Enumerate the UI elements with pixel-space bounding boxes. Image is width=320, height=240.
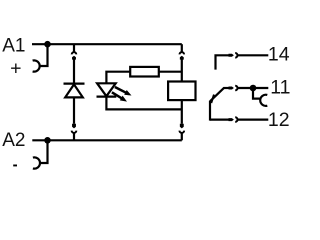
contact 11 common line [224,87,229,89]
svg-text:12: 12 [268,109,290,131]
wire coil lower lead [181,100,183,124]
label 14 [268,44,290,66]
svg-text:+: + [10,57,21,79]
plug socket top left [72,44,77,54]
plug pin line 12 [229,118,234,121]
plug pin top right [180,56,184,60]
plug socket bottom right [180,131,185,141]
wire clamp A2 to rail [40,140,47,163]
label A1 [2,35,25,56]
terminal clamp A1 [33,60,40,71]
plug socket top right [180,44,185,54]
node junction dot A2 [44,137,51,144]
diode D1 cathode bar [64,82,85,84]
plug socket bottom left [72,131,77,141]
label 11 [270,77,290,99]
wire lever to NC contact [209,101,211,121]
lever actuator tick [211,95,214,103]
LED light arrow 1 [115,87,132,96]
wire LED branch upper [106,72,131,84]
LED light arrow 2 [112,92,127,101]
label A2 [2,130,25,151]
label - [13,165,17,167]
wire LED branch lower [106,97,181,110]
LED triangle [97,83,116,96]
LED cathode bar [97,95,117,97]
wire dot 11 to clamp [253,91,260,99]
wire top rail A1 [32,43,182,45]
wire coil upper lead [181,60,183,82]
wire line 14 to label [238,54,269,56]
wire line 12 to label [238,118,269,120]
resistor R1 [130,67,159,77]
terminal clamp 11 [260,95,267,106]
node junction dot 11 [250,85,257,92]
wire bottom rail A2 [32,139,182,141]
plug pin line 14 [229,54,234,57]
plug pin line 11 [229,87,234,90]
wire diode branch upper [73,59,75,84]
terminal clamp A2 [33,157,40,168]
wire clamp A1 to rail [40,44,48,66]
plug socket line 12 [235,117,237,122]
wire diode branch lower [73,97,75,123]
svg-text:A1: A1 [2,35,25,56]
relay coil K1 [168,82,195,101]
label 12 [268,109,290,131]
svg-text:11: 11 [270,77,290,99]
contact 14 line and post [216,55,229,69]
plug pin top left [72,56,76,60]
label + [10,57,21,79]
svg-text:14: 14 [268,44,290,66]
wire resistor to coil branch [159,71,182,73]
diode D1 triangle [65,84,83,97]
plug pin bottom left [72,124,76,129]
plug socket line 14 [235,53,237,58]
plug socket line 11 [235,86,237,91]
relay lever [210,88,224,102]
wire line 11 to label [238,87,269,89]
contact 12 NC line [210,118,229,120]
plug pin bottom right [180,124,184,129]
node junction dot A1 [44,41,51,48]
svg-text:A2: A2 [2,130,25,151]
